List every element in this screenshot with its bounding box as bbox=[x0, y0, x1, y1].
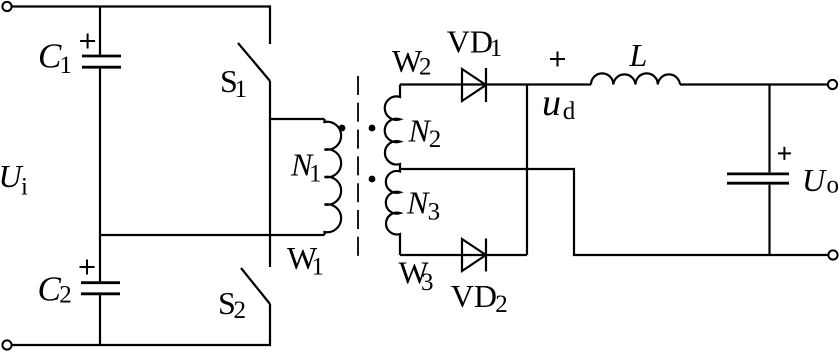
svg-text:N: N bbox=[406, 184, 430, 220]
svg-text:L: L bbox=[629, 37, 648, 73]
svg-text:1: 1 bbox=[235, 76, 248, 103]
svg-text:1: 1 bbox=[60, 52, 73, 79]
svg-text:3: 3 bbox=[428, 199, 441, 226]
svg-text:2: 2 bbox=[234, 297, 247, 324]
svg-text:1: 1 bbox=[309, 161, 322, 188]
svg-text:U: U bbox=[0, 158, 24, 194]
svg-text:VD: VD bbox=[451, 278, 497, 314]
svg-text:C: C bbox=[38, 270, 62, 309]
svg-text:U: U bbox=[802, 162, 827, 198]
svg-text:2: 2 bbox=[419, 54, 432, 81]
svg-text:i: i bbox=[21, 174, 28, 201]
svg-text:o: o bbox=[827, 172, 839, 199]
svg-text:u: u bbox=[542, 82, 561, 124]
svg-text:2: 2 bbox=[495, 291, 508, 318]
svg-text:d: d bbox=[563, 98, 576, 125]
svg-text:1: 1 bbox=[490, 35, 503, 62]
svg-text:VD: VD bbox=[447, 23, 493, 59]
svg-text:2: 2 bbox=[429, 126, 442, 153]
svg-text:1: 1 bbox=[312, 254, 325, 281]
svg-text:3: 3 bbox=[421, 269, 434, 296]
svg-text:C: C bbox=[38, 37, 62, 76]
svg-text:2: 2 bbox=[59, 282, 72, 309]
